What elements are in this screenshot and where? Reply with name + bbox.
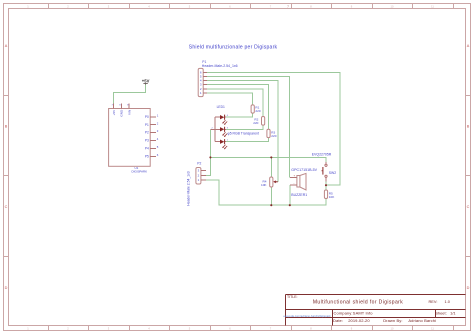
- svg-text:B: B: [467, 125, 470, 129]
- svg-text:1.0: 1.0: [445, 299, 451, 304]
- svg-text:Multifunctional shield for Dig: Multifunctional shield for Digispark: [313, 299, 403, 305]
- svg-text:10K: 10K: [329, 195, 335, 199]
- svg-text:D: D: [5, 286, 8, 290]
- svg-text:φ5 RGB Transparent: φ5 RGB Transparent: [228, 132, 259, 136]
- svg-text:P3: P3: [145, 139, 149, 143]
- svg-text:C: C: [467, 205, 470, 209]
- svg-text:Adriano Barchi: Adriano Barchi: [408, 318, 436, 323]
- svg-text:Header-Male 2.54_1x3: Header-Male 2.54_1x3: [187, 171, 191, 206]
- svg-text:LED1: LED1: [217, 105, 225, 109]
- svg-text:+5V: +5V: [142, 79, 150, 84]
- svg-text:SW2: SW2: [329, 171, 336, 175]
- svg-text:REV:: REV:: [429, 299, 438, 304]
- svg-text:C: C: [5, 205, 8, 209]
- svg-text:P2: P2: [197, 162, 201, 166]
- svg-text:Company:: Company:: [334, 310, 353, 315]
- svg-text:SAMT Info: SAMT Info: [353, 310, 373, 315]
- svg-text:Drawn By:: Drawn By:: [383, 318, 402, 323]
- svg-text:+5V: +5V: [112, 109, 116, 116]
- svg-text:1/1: 1/1: [450, 310, 456, 315]
- svg-text:220: 220: [255, 109, 260, 113]
- svg-text:GPC17151B-5V: GPC17151B-5V: [291, 168, 317, 172]
- svg-text:Header-Male-2.54_1x6: Header-Male-2.54_1x6: [202, 64, 238, 68]
- svg-text:2019-02-20: 2019-02-20: [348, 318, 370, 323]
- svg-text:EVQ22705R: EVQ22705R: [312, 153, 332, 157]
- svg-text:Shield multifunzionale per Dig: Shield multifunzionale per Digispark: [189, 45, 278, 51]
- svg-text:VIN: VIN: [128, 110, 132, 115]
- svg-text:220: 220: [253, 121, 258, 125]
- svg-text:-: -: [294, 181, 295, 185]
- svg-text:P2: P2: [145, 131, 149, 135]
- svg-text:BUZZER1: BUZZER1: [291, 193, 307, 197]
- svg-text:TITLE:: TITLE:: [287, 295, 298, 299]
- svg-text:220: 220: [271, 134, 276, 138]
- svg-text:D: D: [467, 286, 470, 290]
- svg-text:GND: GND: [120, 109, 124, 117]
- svg-text:easyeda.com/adriano-barchi/dig: easyeda.com/adriano-barchi/digispark: [283, 314, 331, 318]
- svg-text:Date:: Date:: [333, 318, 343, 323]
- svg-text:10K: 10K: [261, 183, 267, 187]
- svg-text:P1: P1: [145, 123, 149, 127]
- svg-text:P4: P4: [145, 147, 149, 151]
- svg-text:Sheet:: Sheet:: [435, 310, 447, 315]
- svg-text:P5: P5: [145, 154, 149, 158]
- svg-text:P0: P0: [145, 115, 149, 119]
- svg-text:A: A: [5, 44, 8, 48]
- svg-text:A: A: [467, 44, 470, 48]
- svg-text:B: B: [5, 125, 8, 129]
- svg-text:DIGISPARK: DIGISPARK: [132, 170, 148, 174]
